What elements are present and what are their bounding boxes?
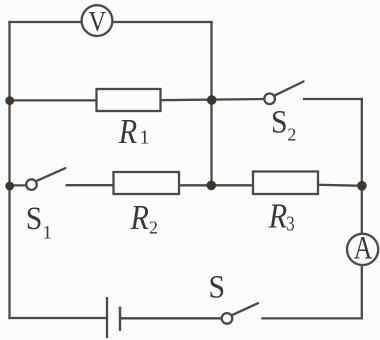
resistor R1 xyxy=(97,89,161,111)
node A mid row1 xyxy=(207,95,217,105)
svg-text:S: S xyxy=(271,103,288,140)
svg-text:1: 1 xyxy=(140,127,150,149)
node junction left row2 xyxy=(5,182,14,191)
switch S2 contact circle xyxy=(264,94,275,105)
svg-text:2: 2 xyxy=(149,218,158,238)
wire: vertical from top-right corner down through node A to node C xyxy=(210,22,212,185)
wire: after switch S to bottom-right corner xyxy=(262,317,361,319)
switch S2 arm xyxy=(274,82,303,96)
wire: row2 R2 to node C xyxy=(179,184,212,186)
switch S arm xyxy=(232,303,259,315)
wire: top horizontal through voltmeter xyxy=(10,21,212,23)
wire: row1 left segment to R1 xyxy=(10,99,97,101)
svg-text:3: 3 xyxy=(286,213,294,236)
svg-text:R: R xyxy=(130,199,149,238)
ammeter circle xyxy=(347,234,378,265)
wire: battery to switch S xyxy=(120,317,222,319)
wire: row2 R3 to node B xyxy=(318,185,362,186)
wire: row1 R1 to node A and on to switch S2 xyxy=(161,99,265,100)
wire: row2 from S1 to R2 xyxy=(67,184,114,186)
wire: after S2 to top-right of right branch xyxy=(304,98,362,100)
svg-text:S: S xyxy=(26,200,43,237)
wire: right vertical down through node B and ammeter to bottom-right corner xyxy=(361,99,363,318)
resistor R2 xyxy=(114,172,180,194)
node C mid row2 xyxy=(207,181,217,191)
svg-text:R: R xyxy=(268,197,287,236)
switch S contact circle xyxy=(222,313,233,324)
wire: bottom left to battery xyxy=(10,317,108,319)
battery short plate xyxy=(119,307,121,332)
node junction left row1 xyxy=(5,96,14,105)
svg-text:V: V xyxy=(89,5,107,37)
resistor R3 xyxy=(253,172,318,195)
svg-text:1: 1 xyxy=(43,223,53,244)
voltmeter circle xyxy=(82,5,113,36)
switch S1 arm xyxy=(36,168,65,181)
svg-text:S: S xyxy=(209,268,226,305)
switch S1 contact circle xyxy=(26,179,37,190)
wire: left vertical from top-left corner to bottom-left corner xyxy=(8,22,10,318)
svg-text:2: 2 xyxy=(287,125,296,145)
wire: stub from left row2 node to S1 contact xyxy=(10,184,27,186)
wire: row2 node C to R3 xyxy=(212,184,254,186)
svg-text:R: R xyxy=(118,113,137,152)
node B right row2 xyxy=(357,181,367,191)
svg-text:A: A xyxy=(354,231,373,267)
battery long plate xyxy=(106,297,108,338)
